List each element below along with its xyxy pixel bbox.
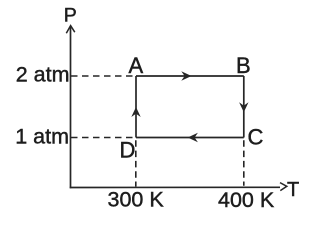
- svg-text:400 K: 400 K: [218, 188, 275, 212]
- svg-text:T: T: [287, 179, 299, 201]
- svg-text:300 K: 300 K: [108, 188, 165, 212]
- arrowhead B to C: [239, 102, 248, 112]
- y-axis: [70, 27, 72, 188]
- svg-text:1 atm: 1 atm: [15, 125, 69, 149]
- y-axis arrowhead: [66, 26, 75, 34]
- dashed guide 2 atm: [71, 75, 134, 77]
- svg-text:A: A: [129, 53, 144, 78]
- dashed guide 300 K: [135, 140, 137, 186]
- x-axis arrowhead: [280, 183, 287, 191]
- arrowhead C to D: [188, 133, 198, 142]
- wire isobar A-B (2 atm): [136, 75, 244, 77]
- dashed guide 1 atm: [71, 137, 134, 139]
- svg-text:2 atm: 2 atm: [16, 62, 70, 86]
- svg-text:P: P: [64, 5, 77, 27]
- wire isochore-like B-C (400 K): [243, 76, 245, 138]
- wire isobar C-D (1 atm): [136, 137, 244, 139]
- svg-text:D: D: [120, 137, 136, 162]
- x-axis: [70, 186, 280, 188]
- svg-text:B: B: [236, 53, 251, 78]
- svg-text:C: C: [248, 125, 264, 150]
- arrowhead A to B: [181, 71, 191, 80]
- wire D-A (300 K): [135, 76, 137, 138]
- arrowhead D to A: [131, 107, 140, 117]
- dashed guide 400 K: [243, 140, 245, 186]
